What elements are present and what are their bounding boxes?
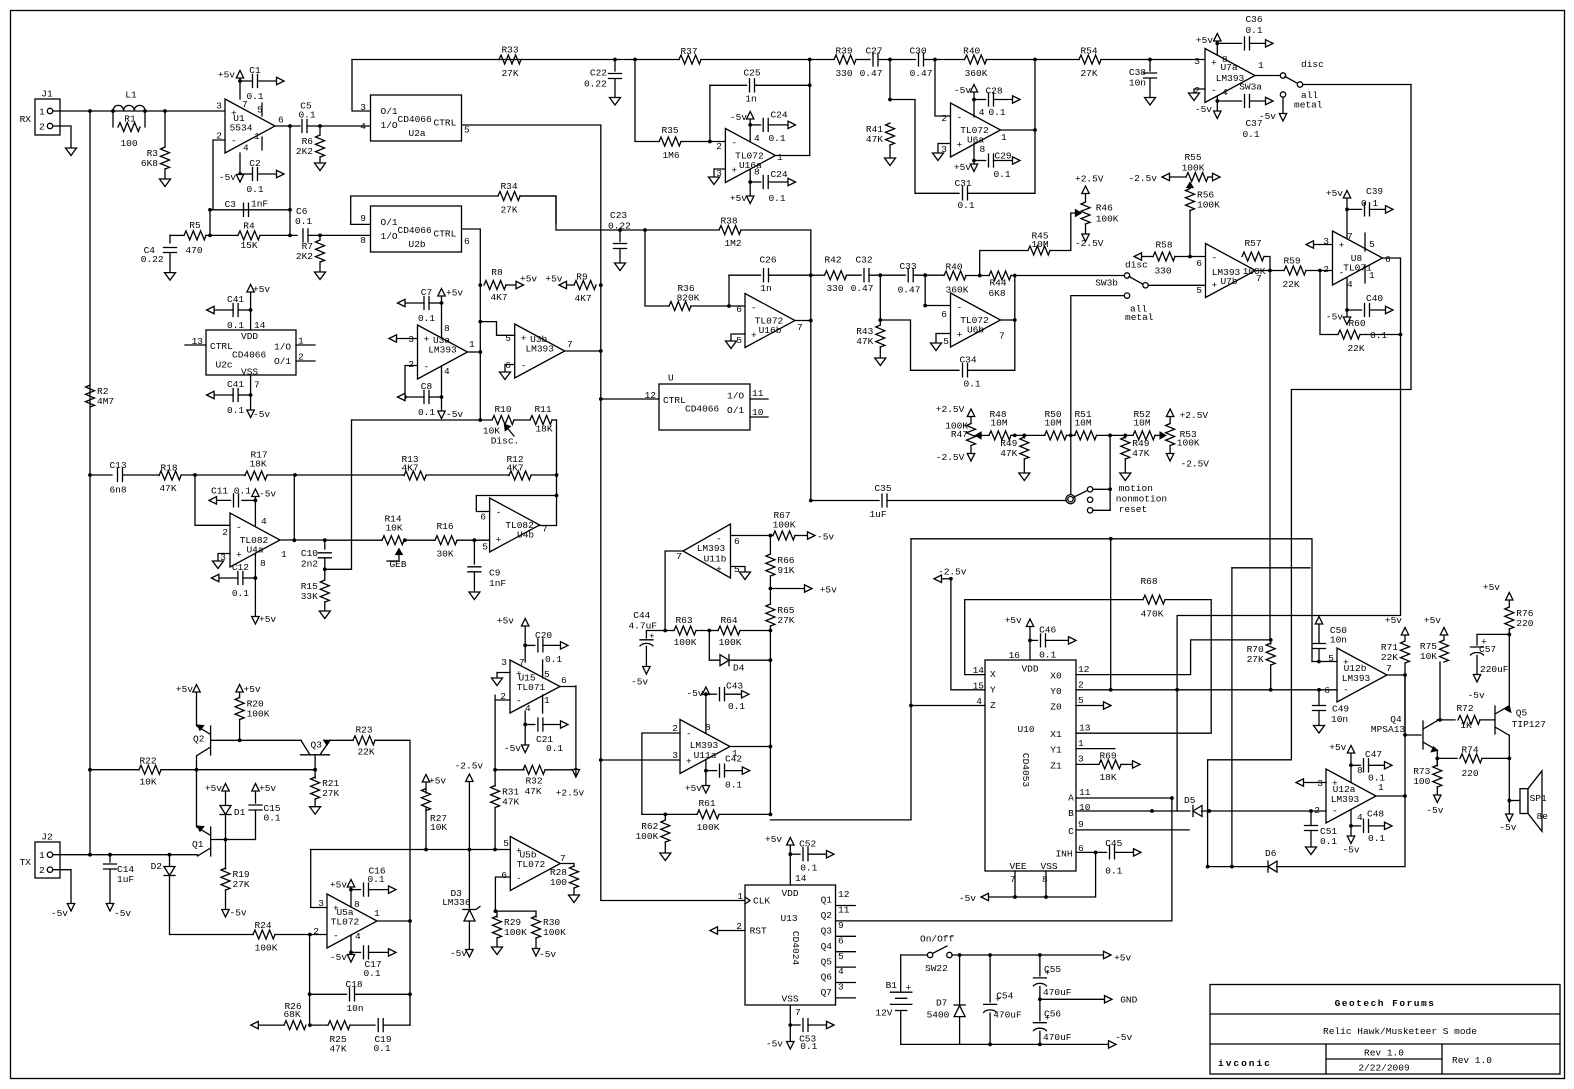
wire C31 loop right [968,130,1035,193]
svg-text:-5v: -5v [959,893,976,904]
svg-text:R24: R24 [254,920,271,931]
svg-text:Q7: Q7 [821,987,832,998]
svg-text:-5v: -5v [230,908,247,919]
svg-text:+5v: +5v [1483,582,1500,593]
capacitor C7 [429,302,442,304]
svg-text:C32: C32 [855,255,872,266]
svg-text:TL072: TL072 [331,917,360,928]
op-amp U7a [1205,49,1255,103]
capacitor C37 [1217,100,1241,102]
svg-text:0.1: 0.1 [800,863,817,874]
capacitor C2 [240,173,253,175]
resistor R42 [825,271,847,280]
svg-text:3: 3 [1323,236,1329,247]
wire R54 to U7a [1101,59,1205,61]
wire U8 pin3 [1313,244,1333,246]
svg-text:12: 12 [1078,664,1090,675]
junction [318,234,322,238]
svg-text:J1: J1 [41,89,53,100]
capacitor C13 [118,469,123,482]
junction [878,318,882,322]
wire battery top [900,955,902,992]
svg-text:U7b: U7b [1220,276,1237,287]
svg-text:-: - [686,729,692,740]
wire Q5 collector down [1508,735,1510,800]
junction [1269,638,1273,642]
svg-text:-: - [516,873,522,884]
wire C18 right [355,993,410,995]
junction [1215,42,1219,46]
junction [254,576,258,580]
wire to D2 [169,855,171,866]
inductor L1 [113,105,145,111]
junction [663,813,667,817]
wire U11a pin8 top [705,694,707,733]
wire U10 B to D5 [1076,810,1190,812]
svg-text:C55: C55 [1044,964,1061,975]
svg-text:SP1: SP1 [1530,793,1547,804]
svg-text:10M: 10M [1074,418,1091,429]
svg-text:MPSA13: MPSA13 [1371,724,1406,735]
svg-text:7: 7 [1347,231,1353,242]
ground [160,179,171,187]
wire R42 to C32 [847,274,862,276]
resistor R75 [1440,640,1449,662]
op-amp U5b [510,837,560,891]
wire to R32 [495,769,524,771]
svg-text:7: 7 [560,853,566,864]
svg-text:C36: C36 [1245,14,1262,25]
wire U2d pin12 [601,398,659,400]
svg-text:5: 5 [734,564,740,575]
svg-text:R40: R40 [945,262,962,273]
wire C9 to ground [473,573,475,592]
svg-text:0.22: 0.22 [141,254,164,265]
wire C25 right [755,84,810,86]
power +5v [252,784,259,792]
svg-text:2: 2 [222,527,228,538]
wire J1 pin1 to U1 [60,110,225,112]
svg-text:18K: 18K [535,424,552,435]
wire R22 to R21 [161,769,315,771]
svg-text:R54: R54 [1080,45,1097,56]
resistor R26 [284,1021,306,1030]
power +5v [747,196,754,204]
wire U10 VSS [1045,871,1047,897]
svg-text:C24: C24 [770,110,787,121]
junction [1507,757,1511,761]
svg-text:+: + [236,550,242,561]
junction [254,499,258,503]
wire to R7 [319,235,321,240]
junction [293,473,297,477]
ground [315,272,326,280]
junction [1403,794,1407,798]
svg-text:3: 3 [1317,778,1323,789]
svg-text:R57: R57 [1244,238,1261,249]
svg-text:0.22: 0.22 [608,221,631,232]
wire GND tap [1040,998,1105,1000]
wire C27 to C30 [878,59,916,61]
svg-text:R11: R11 [534,404,551,415]
wire to R43 [879,276,881,326]
svg-text:C: C [1068,826,1074,837]
svg-text:8: 8 [1042,874,1048,885]
svg-text:220: 220 [1516,618,1533,629]
capacitor C23 [614,244,627,249]
junction [704,769,708,773]
wire R34 left [351,196,498,224]
wire U10 Y riser [951,579,985,690]
wire C23 to ground [619,250,621,264]
svg-text:Q4: Q4 [821,941,833,952]
power rail arrow [1213,173,1221,180]
wire C34 loop right [968,320,1015,370]
svg-text:CD4066: CD4066 [232,350,267,361]
wire U11a pin3 [601,759,680,761]
power +5v [1347,746,1354,754]
svg-text:220uF: 220uF [1480,664,1509,675]
power -5v [702,687,709,695]
svg-text:14: 14 [254,320,266,331]
junction [494,909,498,913]
potentiometer R47 [967,424,976,446]
resistor R1 [112,111,114,127]
junction [349,951,353,955]
svg-text:6: 6 [505,360,511,371]
wire U2c VSS [250,375,252,412]
junction [599,283,603,287]
svg-text:U: U [668,373,674,384]
resistor R41 [886,123,895,145]
wire to R6 [319,126,321,135]
svg-text:LM393: LM393 [1342,673,1371,684]
svg-text:2: 2 [408,359,414,370]
capacitor C22 [609,74,622,79]
junction [1033,128,1037,132]
wire U3b pin5 [480,322,514,336]
wire U3b pin6 [505,365,515,373]
svg-text:U2b: U2b [409,239,426,250]
op-amp U4b [490,498,540,552]
power -5v [1473,675,1480,683]
svg-text:0.1: 0.1 [1370,330,1387,341]
junction [349,888,353,892]
resistor R38 [719,226,741,235]
svg-text:22K: 22K [1347,343,1364,354]
wire U7a out [1255,75,1280,77]
power -5v [222,910,229,918]
wire R65 down [769,626,771,660]
svg-text:C10: C10 [301,548,318,559]
resistor R16 [435,536,457,545]
junction [704,692,708,696]
wire R70 bottom [1270,665,1272,690]
potentiometer R53 [1166,424,1175,446]
junction [1268,269,1272,273]
svg-text:10M: 10M [1031,239,1048,250]
svg-text:Q3: Q3 [821,926,833,937]
wire X0 to R70 [1076,640,1271,675]
svg-text:10n: 10n [1330,635,1347,646]
svg-text:-5v: -5v [114,908,131,919]
power rail arrow [710,927,718,934]
junction [308,992,312,996]
capacitor C55 [1033,978,1046,986]
wire U5a pin3 riser [311,850,327,908]
svg-text:22K: 22K [357,746,374,757]
svg-text:C29: C29 [994,151,1011,162]
svg-text:6: 6 [736,304,742,315]
svg-text:470: 470 [185,245,202,256]
wire U16b pin5 [731,334,745,341]
junction [599,349,603,353]
diode D1 LED [220,806,231,815]
svg-text:6n8: 6n8 [109,485,126,496]
svg-text:SW3b: SW3b [1095,278,1118,289]
resistor R18 [159,471,181,480]
svg-text:10K: 10K [139,777,156,788]
svg-text:X: X [990,669,996,680]
junction [769,629,773,633]
svg-text:C20: C20 [535,630,552,641]
svg-text:R59: R59 [1283,256,1300,267]
svg-text:TIP127: TIP127 [1512,719,1546,730]
junction [1109,688,1113,692]
power arrow [1315,617,1322,625]
power -5v [787,1042,794,1050]
svg-text:B: B [1068,808,1074,819]
svg-text:1M2: 1M2 [724,238,741,249]
junction [208,234,212,238]
power -5v [252,489,259,497]
svg-text:C31: C31 [954,178,971,189]
svg-text:TL071: TL071 [517,682,546,693]
wire SP1 to -5v [1508,801,1510,815]
resistor R71 [1401,641,1410,663]
svg-text:SW22: SW22 [925,963,948,974]
ground [319,611,330,619]
svg-text:C2: C2 [249,158,261,169]
svg-text:X1: X1 [1050,729,1062,740]
svg-text:+5v: +5v [497,615,514,626]
svg-text:-: - [1332,806,1338,817]
resistor R49 [1020,437,1029,459]
wire U4a pin8 [254,553,256,616]
svg-text:C25: C25 [743,68,760,79]
wire U10 X to R68 [965,600,1143,675]
junction [288,124,292,128]
svg-text:C3: C3 [225,199,237,210]
svg-text:Q5: Q5 [821,956,833,967]
svg-text:-5v: -5v [1468,690,1485,701]
power +5v [193,685,200,693]
junction [1022,434,1026,438]
wire U2a CTRL clock line [462,125,745,901]
svg-text:-2.5v: -2.5v [1128,173,1157,184]
wire C49 down [1318,712,1320,726]
power -2.5v [1162,173,1170,180]
svg-text:J2: J2 [41,832,53,843]
capacitor C47 [1351,764,1361,766]
resistor R60 [1338,330,1360,339]
wire U16a pin3 [714,169,725,177]
capacitor C57 [1471,647,1484,655]
svg-text:100K: 100K [543,927,566,938]
wire R43 to ground [879,347,881,358]
svg-text:7: 7 [254,380,260,391]
svg-text:Q3: Q3 [311,740,323,751]
resistor R3 [161,147,170,169]
junction [493,768,497,772]
svg-text:22K: 22K [1282,279,1299,290]
wire to R22 [90,769,139,771]
wire R51 to R52 [1097,434,1134,436]
wire bus [701,59,834,61]
svg-text:100: 100 [1413,776,1430,787]
svg-text:47K: 47K [1132,448,1149,459]
junction [909,704,913,708]
junction [1349,763,1353,767]
power +5v [522,619,529,627]
junction [478,350,482,354]
wire R24 to U5a [275,934,327,936]
svg-text:Y1: Y1 [1050,745,1062,756]
svg-text:27K: 27K [233,879,250,890]
svg-text:330: 330 [1154,266,1171,277]
wire U15 pin7 [524,626,526,662]
wire R11 to feedback [556,420,558,496]
svg-text:R72: R72 [1456,703,1473,714]
svg-text:47K: 47K [502,797,519,808]
capacitor C21 [525,724,535,726]
power -5v [1506,814,1513,822]
junction [523,723,527,727]
svg-text:+5v: +5v [545,274,562,285]
wire R30 down [535,938,537,948]
capacitor C29 [974,160,986,162]
svg-text:C41: C41 [227,294,244,305]
junction [1038,953,1042,957]
junction [809,319,813,323]
svg-text:0.1: 0.1 [363,968,380,979]
svg-text:R8: R8 [491,267,503,278]
wire C38 to ground [1149,79,1151,98]
pin 5 stub [1364,233,1366,251]
junction [108,853,112,857]
svg-text:VSS: VSS [241,367,258,378]
wire U7b out down to R70 [1269,271,1271,640]
junction [1108,434,1112,438]
power -5v [438,411,445,419]
svg-text:R39: R39 [835,45,852,56]
junction [288,234,292,238]
svg-text:100K: 100K [1197,200,1220,211]
svg-text:R60: R60 [1348,318,1365,329]
svg-text:-: - [731,138,737,149]
svg-text:+: + [1212,280,1218,291]
wire Q2 emitter up [196,692,198,726]
power -5v [236,175,243,183]
junction [468,848,472,852]
svg-text:X0: X0 [1050,671,1062,682]
junction [643,228,647,232]
svg-text:ivconic: ivconic [1218,1058,1272,1069]
svg-text:C9: C9 [489,568,501,579]
svg-text:C43: C43 [726,680,743,691]
wire R72 to Q5 [1480,719,1495,721]
wire R68 to X1 [1076,600,1211,734]
wire to C51 [1310,811,1312,825]
wire C22 to ground [614,80,616,98]
ground [885,158,896,166]
svg-text:27K: 27K [322,788,339,799]
junction [958,953,962,957]
wire R73 down [1436,787,1438,795]
svg-text:0.1: 0.1 [373,1043,390,1054]
wire U16a pin4 [749,119,751,142]
wire U8 pin4 [1346,277,1348,317]
svg-text:CLK: CLK [753,896,770,907]
wire U12b pin5 [1312,661,1337,663]
wire to R31 [494,770,496,786]
svg-text:+5v: +5v [446,288,463,299]
svg-text:TX: TX [20,857,32,868]
svg-text:R61: R61 [698,798,715,809]
wire U6a pin4 [973,92,975,117]
junction [195,768,199,772]
svg-text:C8: C8 [421,381,433,392]
junction [1438,718,1442,722]
junction [111,109,115,113]
svg-text:+5v: +5v [1196,35,1213,46]
wire to R49 [1023,435,1025,438]
wire to motion contacts [1109,435,1111,510]
capacitor C32 [864,269,869,282]
transistor Q5 [1495,706,1509,736]
wire battery to switch [901,954,928,956]
wire R4 to C6 [260,234,297,236]
power +5v [1440,628,1447,636]
svg-text:5: 5 [544,669,550,680]
wire R47 bottom [970,446,972,454]
wire to U7b pin6 [1175,256,1206,258]
capacitor C36 [1217,42,1241,44]
svg-text:2n2: 2n2 [301,559,318,570]
junction [748,180,752,184]
svg-text:+2.5v: +2.5v [556,788,585,799]
svg-text:-5v: -5v [219,172,236,183]
svg-text:0.47: 0.47 [860,68,883,79]
wire U2b pin6 down [462,229,480,353]
svg-text:47K: 47K [329,1044,346,1055]
svg-text:-5v: -5v [504,743,521,754]
svg-text:-2.5v: -2.5v [455,761,484,772]
svg-text:100K: 100K [719,637,742,648]
junction [1435,757,1439,761]
svg-text:27K: 27K [1247,654,1264,665]
wire U6b pin5 [936,334,951,344]
junction [727,304,731,308]
wire Y0 [1076,689,1178,691]
svg-text:C33: C33 [899,261,916,272]
svg-text:TL071: TL071 [1343,263,1372,274]
wire U3a pin8 [441,296,443,338]
wire channel riser [1231,568,1233,867]
op-amp U3b [515,324,565,378]
resistor R15 [320,580,329,602]
wire +2.5 row [311,849,511,851]
